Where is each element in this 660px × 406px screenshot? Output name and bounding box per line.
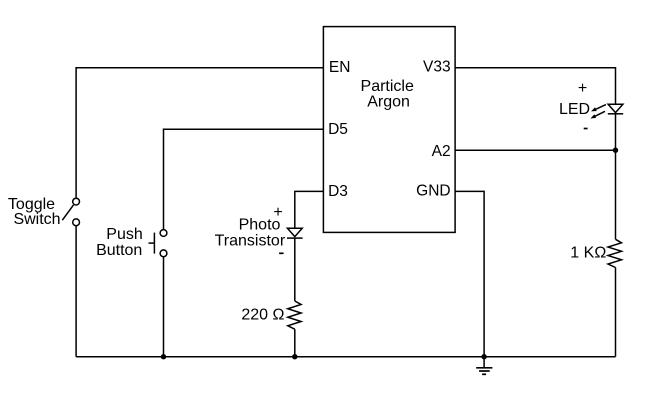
svg-text:+: + bbox=[578, 80, 587, 97]
svg-text:GND: GND bbox=[416, 182, 450, 199]
svg-text:D5: D5 bbox=[328, 121, 348, 138]
svg-text:1 KΩ: 1 KΩ bbox=[570, 244, 606, 261]
svg-text:Argon: Argon bbox=[367, 94, 410, 111]
svg-text:Transistor: Transistor bbox=[215, 233, 286, 250]
svg-text:Switch: Switch bbox=[13, 211, 60, 228]
svg-text:+: + bbox=[273, 204, 282, 221]
svg-text:EN: EN bbox=[329, 59, 351, 76]
svg-text:LED: LED bbox=[559, 101, 590, 118]
svg-text:V33: V33 bbox=[423, 59, 451, 76]
svg-text:D3: D3 bbox=[328, 183, 348, 200]
svg-text:220 Ω: 220 Ω bbox=[241, 306, 284, 323]
svg-text:Button: Button bbox=[96, 242, 142, 259]
svg-text:A2: A2 bbox=[432, 143, 451, 160]
svg-text:Push: Push bbox=[106, 226, 142, 243]
